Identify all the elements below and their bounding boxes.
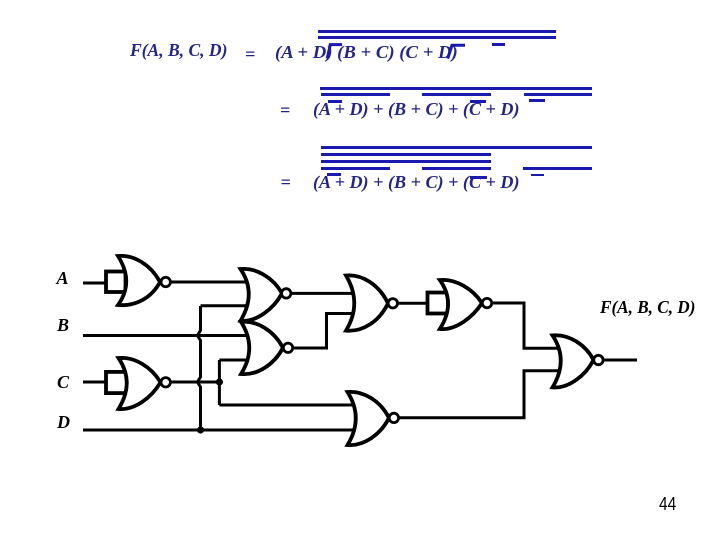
wire C-bar to G4 lower input <box>219 359 247 362</box>
wire G4 out stepping up to G5 <box>293 314 353 349</box>
bubble G8 <box>389 413 398 422</box>
line1 radical hook after (A+D) <box>0 0 720 70</box>
input-tie rectangle of NOR inverter G6 <box>428 293 449 314</box>
wire G6 out right and down to G7 <box>491 303 558 348</box>
junction dot C-bar fanout <box>216 378 223 385</box>
bubble G1 <box>161 277 170 286</box>
input label D <box>57 413 70 431</box>
line2 short dash <box>529 99 545 102</box>
line2 bar over A <box>328 100 342 103</box>
line1 double overbar <box>318 30 556 33</box>
wire G8 out right and up to G7 <box>398 371 558 418</box>
wire G3 lower input <box>201 304 248 307</box>
wire output F <box>603 359 637 362</box>
wire input B to G4 <box>83 334 248 337</box>
NOR gate G4 (B, C-bar) <box>241 322 283 374</box>
input label A <box>57 269 69 287</box>
wire input D to G8 <box>83 429 358 432</box>
NOR gate G3 (A-bar, D) <box>241 269 283 321</box>
bubble G7 <box>594 355 603 364</box>
input label B <box>57 316 69 334</box>
NOR gate G5 <box>346 275 388 330</box>
line2 term overbars <box>321 93 390 96</box>
line3 overbars stack <box>321 146 592 149</box>
wire G2 out to junction <box>170 381 220 384</box>
bubble G2 <box>161 378 170 387</box>
NOR gate G7 (final) <box>553 335 594 387</box>
bubble G4 <box>283 343 292 352</box>
line1 short dash <box>492 43 505 46</box>
junction dot D fanout <box>197 426 204 433</box>
formula line 3 <box>281 173 291 191</box>
line2 bar over C <box>470 100 486 102</box>
page number 44 <box>659 494 676 515</box>
output label F(A, B, C, D) <box>600 298 695 316</box>
bubble G6 <box>482 298 491 307</box>
line2 full overbar <box>320 87 592 90</box>
wire G5 out to tie rectangle <box>397 302 428 305</box>
input-tie rectangle of NOR inverter G1 <box>106 272 126 293</box>
wire vertical C-bar fanout <box>218 360 221 405</box>
NOR gate G2 (C inverter) <box>119 358 161 409</box>
bubble G5 <box>388 299 397 308</box>
bubble G3 <box>282 289 291 298</box>
NOR gate G1 (A inverter) <box>118 256 160 305</box>
line3 short dash <box>531 174 544 177</box>
wire G1 out to G3 <box>170 281 248 284</box>
wire input A <box>83 282 107 285</box>
line3 bar over C <box>470 176 487 178</box>
wire input C <box>83 381 107 384</box>
NOR gate G6 (inverter) <box>440 280 482 329</box>
formula line 2: = (A+D) + (B+C) + (C+D) with bars <box>280 101 290 119</box>
wire C-bar to G8 upper input <box>219 404 358 407</box>
wire vertical D to G3 with hops <box>197 306 200 430</box>
input-tie rectangle of NOR inverter G2 <box>106 372 127 393</box>
NOR gate G8 (bottom, C-bar & D) <box>348 392 390 445</box>
line3 bar over A <box>327 173 342 176</box>
formula line 1: F(A,B,C,D) = (A + D)(B + C)(C + D) <box>130 41 227 59</box>
wire G3 out to G5 <box>291 292 352 295</box>
input label C <box>57 373 69 391</box>
